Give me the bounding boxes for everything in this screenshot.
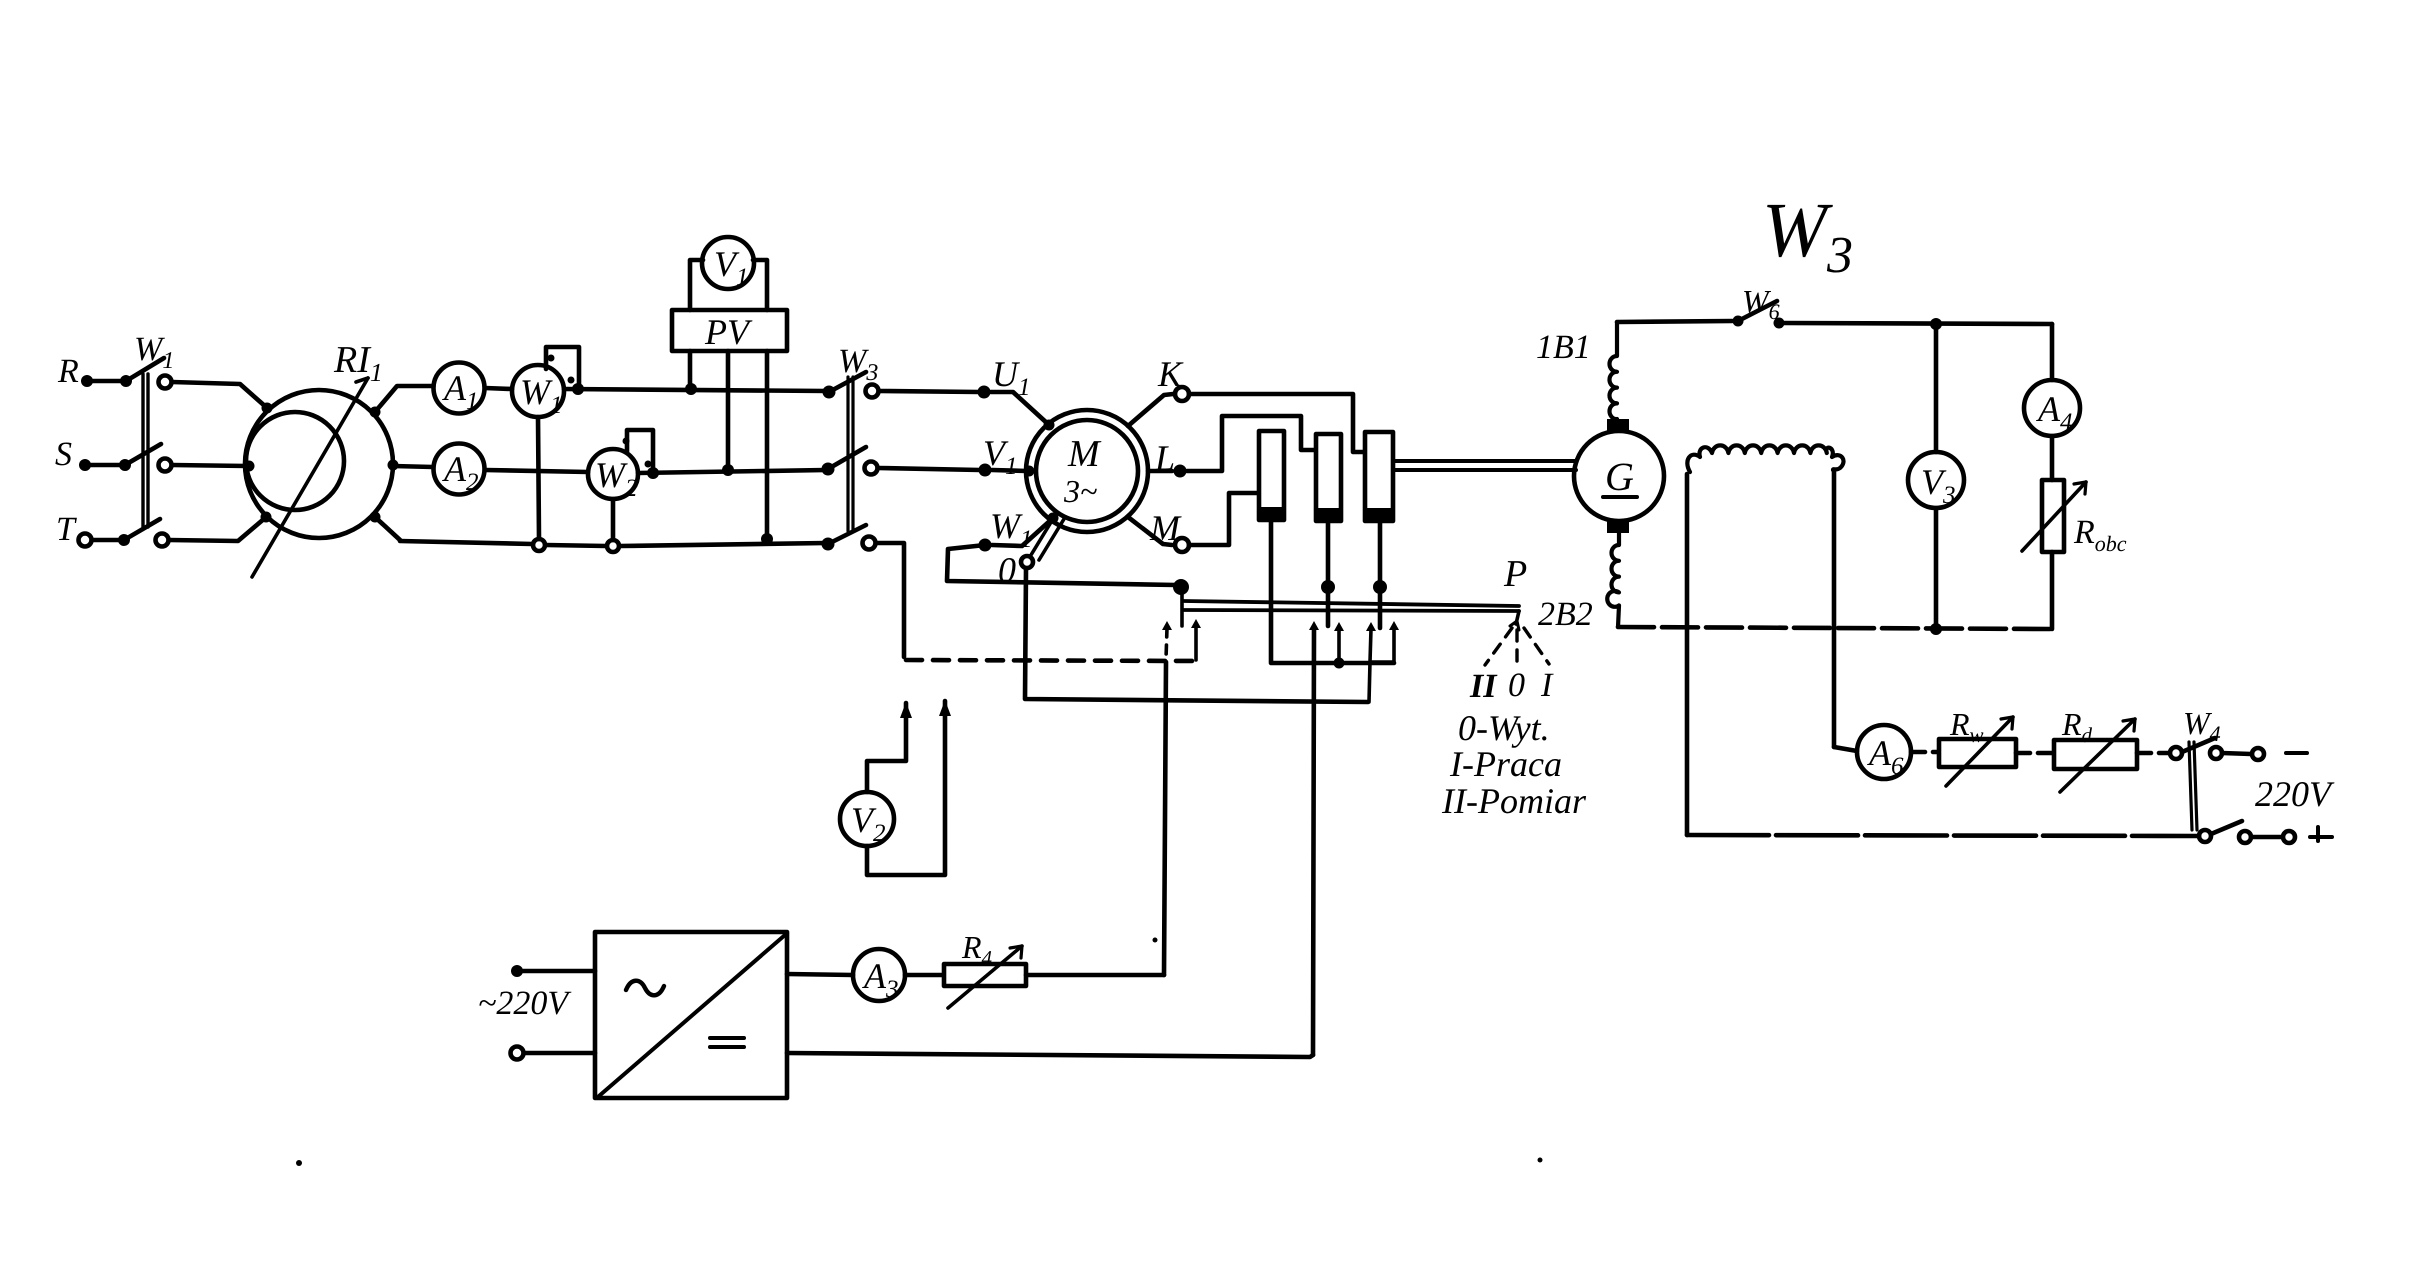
node W1 motor terminal (979, 539, 992, 552)
generator bottom brush (1607, 521, 1629, 533)
wire L to resistor bank (1187, 416, 1314, 471)
switch W1 pole R (120, 375, 132, 387)
svg-text:II: II (1469, 668, 1498, 705)
switch W4 link bar (2189, 742, 2192, 830)
wire RI1 tap to T bus (370, 512, 381, 523)
wire V3 branch bottom (1934, 508, 1939, 628)
voltmeter V1 (702, 237, 754, 289)
wire W3 T to dashed run (876, 543, 904, 657)
wire O down and right (1025, 569, 1368, 702)
wire W3 to V1 node (878, 468, 980, 470)
wire pole A to R4 branch (1164, 662, 1166, 975)
svg-text:R: R (57, 353, 79, 390)
wire PV tap S (726, 351, 731, 468)
wire Robc bottom (2050, 552, 2055, 629)
wire G top to switch W6 (1617, 321, 1732, 322)
generator bottom coil 2B2 (1607, 533, 1619, 627)
generator top brush (1607, 419, 1629, 431)
wire resistor3 bottom (1378, 521, 1383, 628)
field winding left lead (1685, 474, 1690, 835)
wire W3 to U1 (879, 391, 979, 392)
wire W4 to plus terminal (2251, 835, 2282, 840)
svg-text:K: K (1157, 354, 1184, 394)
svg-text:P: P (1503, 553, 1527, 595)
terminal T (79, 534, 92, 547)
shaft to generator (1394, 459, 1576, 463)
svg-text:220V: 220V (2255, 774, 2335, 814)
switch W3 pole T (822, 538, 835, 551)
wattmeter W2 voltage box (627, 430, 653, 468)
ammeter A4 (2024, 380, 2080, 436)
starting resistor 3 (1365, 432, 1393, 521)
rheostat R4 (944, 964, 1026, 986)
motor M outer circle (1026, 410, 1148, 532)
ammeter A6 (1857, 725, 1911, 779)
svg-text:I: I (1540, 667, 1554, 704)
generator bottom bus (1618, 627, 2052, 629)
induction regulator RI1 inner circle (246, 412, 344, 510)
wire S to switch (90, 463, 121, 468)
wire W1 to W3 bus R (572, 383, 584, 395)
wire A3 to R4 (905, 973, 942, 978)
wire PV tap T (765, 351, 770, 538)
wire A2 to W2 (485, 470, 588, 472)
rectifier input terminal bottom (511, 1047, 524, 1060)
induction regulator RI1 arrow (252, 378, 368, 577)
switch W1 pole T (118, 534, 130, 546)
svg-text:S: S (55, 436, 72, 473)
svg-text:II-Pomiar: II-Pomiar (1441, 781, 1587, 821)
switch W1 pole S (119, 459, 131, 471)
terminal R (81, 375, 93, 387)
svg-text:1B1: 1B1 (1536, 329, 1591, 366)
terminal S out (159, 459, 172, 472)
terminal T out (156, 534, 169, 547)
wire W1 current down (538, 417, 539, 539)
wire W1 terminal loop (947, 545, 1176, 585)
wire A4 branch top (2050, 324, 2055, 380)
wire V2 top probe (867, 703, 906, 792)
svg-text:G: G (1605, 454, 1634, 499)
wire A1 to W1 (485, 388, 512, 389)
wire Rw to Rd (2016, 751, 2053, 756)
rheostat Rw (1939, 739, 2016, 767)
svg-text:2B2: 2B2 (1538, 596, 1593, 633)
rectifier box (595, 932, 787, 1098)
wire V1 left lead (690, 260, 703, 310)
rectifier input terminal top (511, 965, 523, 977)
node V1 (979, 464, 992, 477)
svg-text:3~: 3~ (1063, 473, 1097, 509)
starting resistor 2 (1316, 434, 1341, 521)
minus sign (2286, 751, 2307, 755)
generator G (1574, 431, 1664, 521)
wire W4 to minus terminal (2222, 753, 2251, 754)
wire V2 bottom probe (867, 701, 945, 875)
wire M to resistor bank (1189, 493, 1257, 545)
wire resistor2 bottom (1326, 521, 1331, 626)
rectifier DC mark (710, 1036, 744, 1040)
ammeter A2 (434, 444, 485, 495)
wire T bus RI1 to W3 (400, 541, 532, 544)
wire Rd to W4 (2137, 751, 2168, 756)
terminal S (79, 459, 91, 471)
wire K to resistor bank (1189, 394, 1363, 452)
node M (1128, 517, 1172, 545)
wire RI1 to A1 (370, 407, 381, 418)
svg-text:T: T (56, 511, 77, 548)
node K (1128, 394, 1173, 426)
svg-text:M: M (1149, 508, 1182, 548)
field winding of G (1687, 445, 1843, 472)
wire A6 to Rw (1911, 750, 1938, 755)
wire W6 to A4 branch (1784, 323, 2052, 324)
svg-text:I-Praca: I-Praca (1449, 744, 1562, 784)
selector rod P junction (1173, 579, 1189, 595)
voltmeter V3 (1908, 452, 1964, 508)
wire U1 to motor (991, 392, 1048, 424)
voltmeter V2 (840, 792, 894, 846)
wire PV tap R (688, 351, 693, 387)
rheostat Rd (2054, 740, 2137, 769)
wire W2 to W3 bus S (647, 467, 659, 479)
switch W4 top pole (2170, 747, 2182, 759)
speck (1153, 938, 1158, 943)
wire T out to RI1 (169, 518, 265, 541)
switch W3 pole R (823, 386, 836, 399)
wattmeter W1 voltage box (546, 347, 579, 386)
svg-text:~220V: ~220V (478, 985, 572, 1022)
motor star point link (1031, 514, 1056, 555)
ammeter A3 (853, 949, 905, 1001)
svg-text:L: L (1154, 438, 1175, 478)
wire A4 to Robc (2050, 436, 2055, 480)
contact pole A right pin (1191, 619, 1201, 628)
wire T to switch (92, 538, 120, 543)
selector rod tip pin (1516, 611, 1519, 624)
terminal O (1021, 556, 1033, 568)
rectifier AC mark (626, 981, 664, 996)
box PV (672, 310, 787, 351)
wire rectifier bottom output (787, 1053, 1313, 1057)
svg-text:PV: PV (704, 312, 753, 352)
wire S out to RI1 (172, 465, 247, 466)
wire V3 branch top (1934, 329, 1939, 452)
node U1 (978, 386, 991, 399)
ammeter A1 (434, 363, 485, 414)
dashed position fan (1485, 628, 1512, 665)
contact pole B pins (1309, 621, 1319, 630)
wire W2 current down (611, 499, 616, 540)
switch W1 link bar (141, 374, 144, 527)
field winding right lead (1832, 470, 1837, 747)
wire field to A6 (1834, 747, 1857, 751)
wire R to switch (92, 379, 122, 384)
motor W1 stub (992, 519, 1052, 546)
generator top coil 1B1 (1609, 322, 1617, 419)
excitation bottom wire (1687, 835, 2199, 836)
wire R4 up to contact pole A (1026, 973, 1164, 978)
wire rectifier to A3 (787, 974, 853, 975)
wire resistor1 bottom (1271, 521, 1394, 663)
motor M inner circle (1036, 420, 1138, 522)
svg-text:0: 0 (1508, 667, 1525, 704)
selector rod P double line (1184, 601, 1519, 606)
wire R out to RI1 (172, 382, 266, 407)
dashed wire to measuring contacts (906, 660, 1196, 661)
wire RI1 to A2 (388, 460, 399, 471)
wire V1 to motor (992, 470, 1027, 471)
plus sign (2310, 827, 2332, 841)
wire V1 right lead (753, 260, 767, 310)
switch W3 link bar (846, 377, 849, 531)
rheostat Robc (2042, 480, 2064, 552)
switch W3 pole S (822, 463, 835, 476)
induction regulator RI1 outer circle (245, 390, 393, 538)
switch W6 (1733, 316, 1744, 327)
wattmeter W1 (512, 365, 564, 417)
svg-text:0: 0 (998, 550, 1016, 590)
wattmeter W2 (588, 449, 638, 499)
terminal R out (159, 376, 172, 389)
contact pole A left pin (1162, 621, 1172, 630)
svg-text:M: M (1067, 433, 1102, 475)
switch W4 bottom pole (2199, 830, 2211, 842)
starting resistor 1 (1259, 431, 1284, 520)
svg-text:0-Wyt.: 0-Wyt. (1458, 708, 1550, 748)
node L (1148, 469, 1172, 474)
